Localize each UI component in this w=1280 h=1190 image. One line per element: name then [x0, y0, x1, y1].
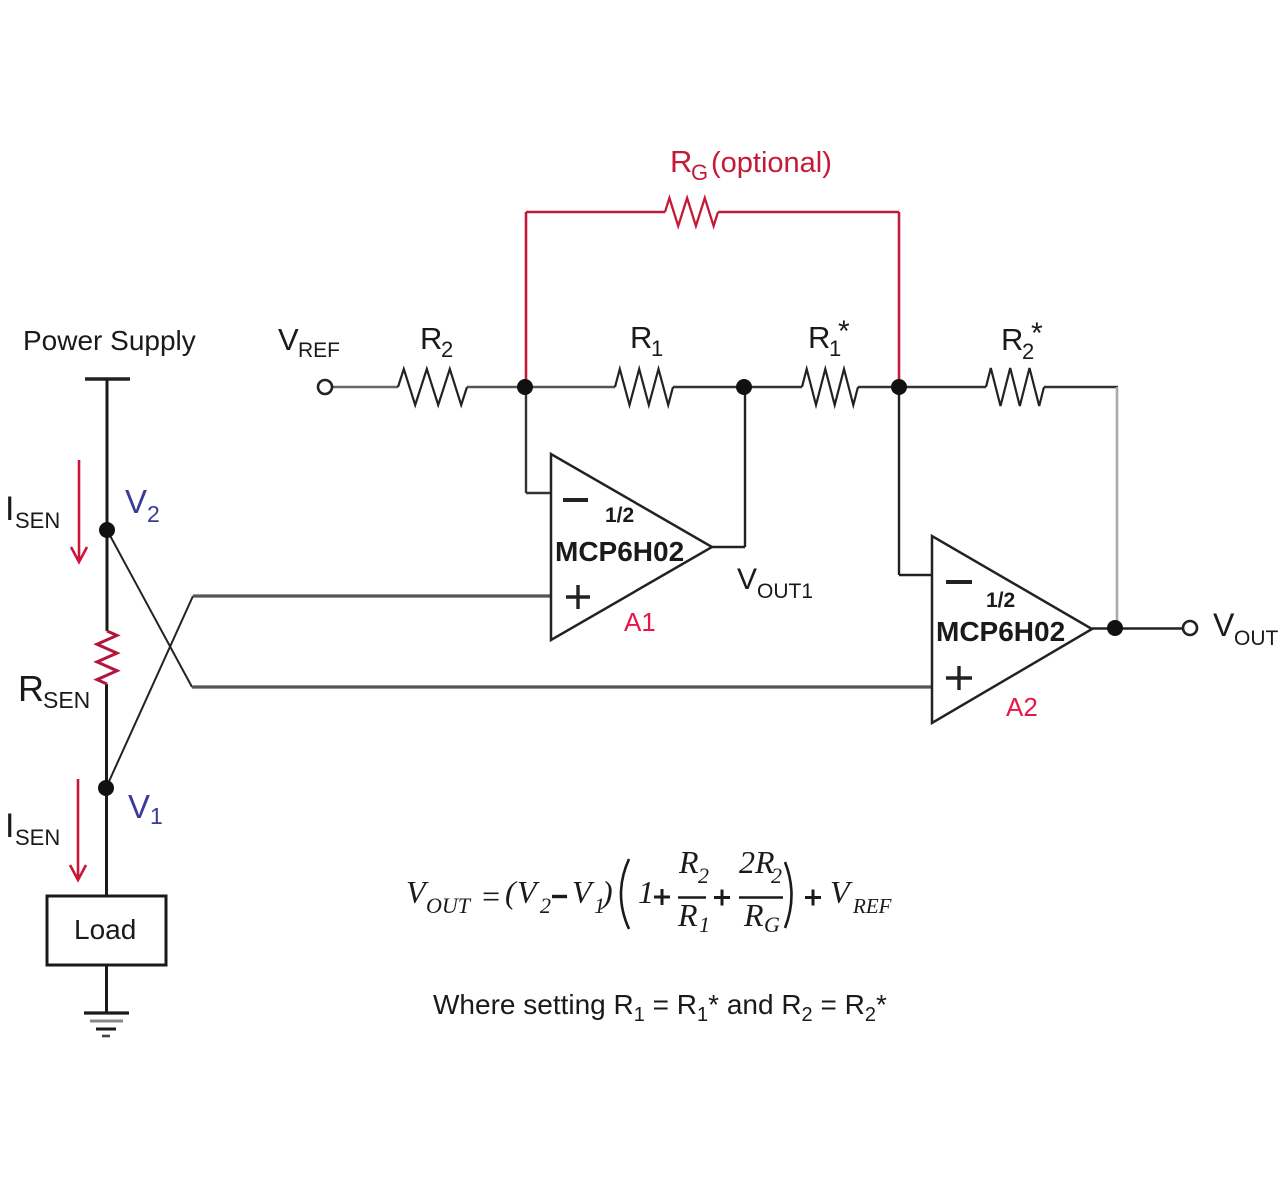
- svg-text:(optional): (optional): [711, 147, 832, 179]
- svg-text:V: V: [737, 563, 757, 596]
- svg-text:1: 1: [699, 912, 710, 937]
- svg-text:2R: 2R: [739, 844, 775, 880]
- svg-text:V: V: [125, 483, 147, 520]
- svg-text:2: 2: [540, 893, 551, 918]
- svg-text:R: R: [808, 320, 830, 355]
- svg-text:SEN: SEN: [43, 687, 90, 713]
- svg-text:OUT: OUT: [1234, 627, 1279, 650]
- svg-text:R: R: [1001, 322, 1023, 357]
- svg-text:2: 2: [147, 501, 160, 527]
- svg-text:I: I: [5, 807, 14, 845]
- svg-text:G: G: [691, 160, 708, 185]
- svg-text:SEN: SEN: [15, 825, 60, 850]
- svg-text:A1: A1: [624, 607, 656, 637]
- svg-text:1/2: 1/2: [986, 589, 1015, 612]
- svg-text:SEN: SEN: [15, 508, 60, 533]
- svg-text:G: G: [764, 912, 780, 937]
- svg-text:R: R: [677, 897, 698, 933]
- svg-text:OUT1: OUT1: [757, 580, 813, 603]
- svg-text:A2: A2: [1006, 692, 1038, 722]
- svg-text:R: R: [630, 320, 652, 355]
- svg-text:R: R: [678, 844, 699, 880]
- svg-text:): ): [600, 874, 613, 910]
- svg-text:Power Supply: Power Supply: [23, 325, 196, 356]
- svg-text:REF: REF: [298, 339, 340, 362]
- svg-text:MCP6H02: MCP6H02: [936, 616, 1065, 647]
- svg-text:R: R: [420, 321, 442, 356]
- svg-text:MCP6H02: MCP6H02: [555, 536, 684, 567]
- svg-text:R: R: [743, 897, 764, 933]
- svg-text:REF: REF: [852, 894, 892, 918]
- svg-text:1: 1: [150, 803, 163, 829]
- svg-text:Load: Load: [74, 914, 136, 945]
- svg-text:1/2: 1/2: [605, 504, 634, 527]
- svg-text:*: *: [838, 315, 850, 348]
- svg-text:OUT: OUT: [426, 893, 472, 918]
- svg-text:2: 2: [698, 863, 709, 888]
- svg-text:1: 1: [638, 874, 654, 910]
- svg-text:R: R: [670, 144, 692, 179]
- svg-text:V: V: [278, 322, 299, 357]
- svg-text:=: =: [480, 878, 502, 914]
- svg-text:I: I: [5, 490, 14, 528]
- svg-text:2: 2: [771, 863, 782, 888]
- svg-text:V: V: [128, 788, 150, 825]
- svg-text:1: 1: [651, 336, 663, 361]
- svg-text:R: R: [18, 668, 44, 709]
- svg-text:2: 2: [441, 337, 453, 362]
- svg-text:V: V: [1213, 607, 1235, 643]
- svg-text:*: *: [1031, 317, 1043, 350]
